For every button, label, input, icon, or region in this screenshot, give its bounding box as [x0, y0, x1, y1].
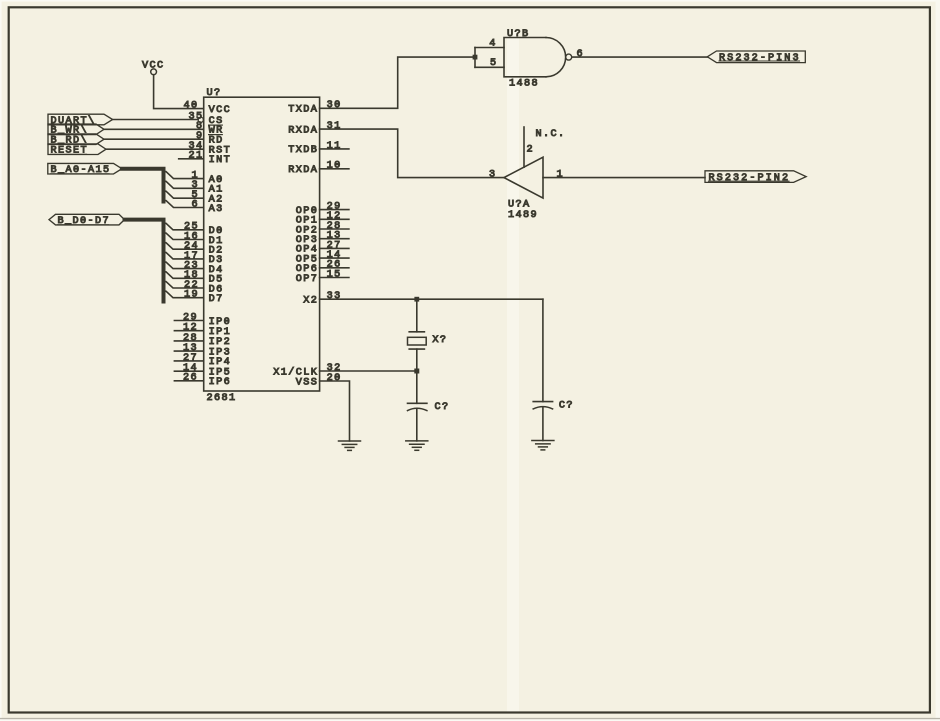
U? pin 27 (IP4)	[174, 353, 231, 368]
U? pin 12 (IP1)	[174, 323, 231, 338]
wire U?A pin 1 to RS232-PIN2	[543, 177, 705, 179]
svg-text:2681: 2681	[207, 393, 237, 404]
svg-text:31: 31	[327, 121, 342, 132]
U? pin 10 (RXDA)	[288, 161, 349, 176]
bus wire B_D0-D7	[125, 220, 164, 302]
ground (below C?)	[406, 441, 428, 450]
wire X1/CLK (pin 32) to junction	[320, 370, 417, 372]
U? pin 34 (RST)	[189, 141, 232, 156]
ground (VSS)	[339, 441, 361, 450]
wire X2 (pin 33) net	[320, 298, 543, 300]
net flag RS232-PIN2	[705, 171, 806, 184]
svg-text:RXDA: RXDA	[288, 165, 318, 176]
U? pin 31 (RXDA)	[288, 121, 341, 136]
wire VCC to U? pin 40	[154, 75, 204, 109]
svg-text:C?: C?	[435, 402, 450, 413]
wire bus branch to D5	[164, 272, 204, 279]
wire right capacitor to ground	[542, 407, 544, 441]
U? pin 30 (TXDA)	[288, 100, 341, 115]
U? pin 28 (IP2)	[174, 333, 231, 348]
U? pin 25 (D0)	[184, 222, 224, 237]
bus wire B_A0-A15	[122, 169, 164, 202]
wire capacitor to ground	[416, 409, 418, 441]
svg-text:C?: C?	[559, 400, 574, 411]
wire VSS (pin 20) to ground	[320, 381, 350, 441]
svg-text:1488: 1488	[509, 78, 539, 89]
U? pin 3 (A1)	[192, 180, 224, 195]
IC U? (2681 DUART) body	[204, 88, 320, 404]
U? pin 13 (OP3)	[296, 231, 349, 246]
svg-text:U?B: U?B	[507, 29, 529, 40]
svg-text:10: 10	[327, 161, 342, 172]
svg-text:A3: A3	[209, 204, 224, 215]
svg-text:1489: 1489	[508, 210, 538, 221]
NAND gate U?B (1488)	[489, 29, 584, 89]
U? pin 32 (X1/CLK)	[273, 363, 341, 378]
wire junction down to capacitor	[416, 371, 418, 403]
svg-text:U?A: U?A	[508, 200, 530, 211]
wire bus branch to D0	[164, 223, 204, 230]
wire crystal to X1/CLK junction	[416, 349, 418, 371]
wire bus branch to A2	[164, 191, 204, 198]
wire U?B pin 6 to RS232-PIN3	[572, 56, 708, 58]
svg-text:VCC: VCC	[209, 105, 231, 116]
svg-text:TXDB: TXDB	[288, 145, 318, 156]
wire X2 junction down to crystal	[416, 299, 418, 332]
wire bus branch to A0	[164, 172, 204, 179]
svg-text:15: 15	[327, 269, 342, 280]
U? pin 5 (A2)	[192, 190, 224, 205]
U? pin 29 (IP0)	[174, 312, 231, 327]
U? pin 14 (OP5)	[296, 250, 349, 265]
wire TXDA (pin 30) to U?B inputs	[320, 57, 475, 108]
svg-text:D7: D7	[209, 294, 224, 305]
svg-text:6: 6	[192, 199, 200, 210]
U? pin 27 (OP4)	[296, 240, 349, 255]
U? pin 33 (X2)	[303, 291, 341, 306]
svg-text:3: 3	[489, 169, 497, 180]
net flag B_A0-A15 (bus)	[48, 163, 122, 176]
wire bus branch to D4	[164, 262, 204, 269]
wire bus branch to A1	[164, 181, 204, 188]
wire DUART\ to U?	[113, 119, 199, 121]
U? pin 18 (D5)	[184, 270, 224, 285]
svg-text:X2: X2	[303, 295, 318, 306]
svg-text:11: 11	[327, 141, 342, 152]
svg-text:6: 6	[577, 49, 585, 60]
U? pin 14 (IP5)	[174, 363, 231, 378]
U? pin 21 INT stub wire	[179, 158, 204, 160]
U? pin 17 (D3)	[184, 251, 224, 266]
U? pin 29 (OP0)	[296, 202, 349, 217]
svg-text:1: 1	[557, 169, 565, 180]
svg-text:U?: U?	[207, 88, 222, 99]
U? pin 40 (VCC)	[184, 101, 232, 116]
wire bus branch to D3	[164, 252, 204, 259]
U? pin 24 (D2)	[184, 241, 224, 256]
net flag DUART\	[48, 114, 113, 127]
U? pin 26 (OP6)	[296, 260, 349, 275]
U? pin 11 (TXDB)	[288, 141, 349, 156]
svg-text:20: 20	[327, 373, 342, 384]
net flag RS232-PIN3	[707, 51, 805, 64]
U? pin 28 (OP2)	[296, 221, 349, 236]
U? pin 6 (A3)	[192, 199, 224, 214]
svg-text:26: 26	[183, 373, 198, 384]
capacitor C? (right)	[533, 400, 574, 411]
wire bus branch to D6	[164, 282, 204, 289]
capacitor C? (crystal load)	[408, 402, 450, 413]
U? pin 8 (WR)	[196, 121, 224, 136]
svg-text:INT: INT	[209, 155, 231, 166]
wire RESET to U?	[106, 148, 204, 150]
U? pin 9 (RD)	[196, 131, 224, 146]
wire RXDA (pin 31) to U?A pin 3	[320, 129, 504, 178]
svg-text:VSS: VSS	[296, 377, 318, 388]
svg-text:N.C.: N.C.	[536, 129, 566, 140]
net flag B_D0-D7 (bus, double arrow)	[49, 214, 125, 227]
svg-text:19: 19	[184, 290, 199, 301]
wire U?B input bar and stubs (pins 4,5)	[475, 48, 504, 68]
svg-text:RS232-PIN3: RS232-PIN3	[719, 53, 801, 64]
svg-text:33: 33	[327, 291, 342, 302]
net flag B_RD\	[48, 134, 104, 147]
N.C. stub on U?A pin 2	[524, 127, 565, 167]
U? pin 12 (OP1)	[296, 211, 349, 226]
wire B_RD\ to U?	[104, 138, 204, 140]
svg-text:X?: X?	[432, 335, 447, 346]
svg-text:RS232-PIN2: RS232-PIN2	[709, 173, 791, 184]
U? pin 13 (IP3)	[174, 343, 231, 358]
svg-text:RXDA: RXDA	[288, 125, 318, 136]
U? pin 35 (CS)	[189, 112, 224, 127]
wire X2 net down right branch	[542, 299, 544, 401]
ground (below right C?)	[532, 441, 554, 450]
svg-text:OP7: OP7	[296, 274, 318, 285]
crystal X?	[408, 332, 448, 349]
wire bus branch to D2	[164, 243, 204, 250]
U? pin 20 (VSS)	[296, 373, 342, 388]
svg-text:IP6: IP6	[209, 377, 231, 388]
U? pin 22 (D6)	[184, 280, 224, 295]
svg-text:21: 21	[189, 151, 204, 162]
wire bus branch to A3	[164, 201, 204, 208]
junction at U?B input split	[473, 55, 478, 60]
svg-text:30: 30	[327, 100, 342, 111]
U? pin 16 (D1)	[184, 231, 224, 246]
svg-text:2: 2	[527, 145, 535, 156]
U? pin 21 (INT)	[189, 151, 232, 166]
wire B_WR\ to U?	[104, 128, 204, 130]
U? pin 35 CS inversion bubble	[198, 117, 203, 122]
U? pin 15 (OP7)	[296, 269, 349, 284]
U? pin 19 (D7)	[184, 290, 224, 305]
svg-text:40: 40	[184, 101, 199, 112]
svg-text:5: 5	[490, 58, 498, 69]
wire bus branch to D7	[164, 291, 204, 298]
net flag RESET	[48, 144, 106, 157]
VCC power symbol	[142, 60, 164, 74]
net flag B_WR\	[48, 124, 104, 137]
svg-text:4: 4	[489, 38, 497, 49]
junction on X2 net at crystal	[414, 297, 419, 302]
junction on X1/CLK net	[414, 369, 419, 374]
svg-text:TXDA: TXDA	[288, 105, 318, 116]
U? pin 23 (D4)	[184, 261, 224, 276]
wire bus branch to D1	[164, 233, 204, 240]
line receiver U?A (1489)	[489, 157, 564, 221]
U? pin 1 (A0)	[192, 171, 224, 186]
U? pin 26 (IP6)	[174, 373, 231, 388]
